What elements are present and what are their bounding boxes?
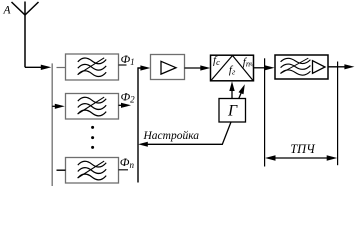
svg-text:А: А xyxy=(3,5,12,17)
svg-text:fс: fс xyxy=(213,55,220,68)
mixer diagonal right xyxy=(233,56,254,81)
IF filter symbol xyxy=(280,58,310,75)
filter F2 symbol xyxy=(78,97,107,116)
filter block F1 xyxy=(66,54,119,80)
wire output stub F1 xyxy=(119,64,127,66)
filter Fn symbol xyxy=(78,161,107,180)
antenna A xyxy=(12,2,39,68)
amplifier U1 xyxy=(151,55,185,80)
wire input arrow F2 xyxy=(52,104,65,109)
dimension double arrow xyxy=(265,155,337,160)
wire G to mixer with arrow xyxy=(229,81,234,98)
svg-text:Настройка: Настройка xyxy=(143,129,200,142)
IF amplifier triangle xyxy=(313,61,326,74)
amplifier triangle xyxy=(161,61,176,74)
ellipsis dots xyxy=(91,126,94,149)
wire input stub Fn xyxy=(57,169,66,171)
wire IF output arrow xyxy=(328,64,354,69)
mixer diagonal left xyxy=(211,56,233,81)
tuning wire (Nastroyka) xyxy=(138,122,231,147)
IF section dimension line left xyxy=(264,58,266,166)
wire input stub F1 xyxy=(57,67,66,69)
svg-text:fг: fг xyxy=(229,64,236,77)
mixer U2 xyxy=(211,55,254,81)
output bus (right vertical) xyxy=(137,68,142,183)
input bus (left vertical) xyxy=(51,63,53,186)
svg-text:Г: Г xyxy=(227,103,238,120)
filter block F2 xyxy=(66,94,119,120)
filter block Fn xyxy=(66,158,119,184)
wire antenna to input bus with arrow xyxy=(25,65,51,70)
wire output arrow F2 xyxy=(119,103,132,108)
wire mixer to IF block with arrow xyxy=(254,65,275,70)
wire output stub Fn xyxy=(119,169,129,171)
tuning diagonal arrow of G xyxy=(239,84,245,98)
IF section dimension line right xyxy=(337,62,339,166)
svg-text:ТПЧ: ТПЧ xyxy=(290,142,316,156)
wire bus to amplifier with arrow xyxy=(140,65,150,70)
svg-text:fпч: fпч xyxy=(243,56,254,69)
wire amplifier to mixer with arrow xyxy=(185,65,211,70)
IF filter-amplifier block xyxy=(275,55,328,79)
filter F1 symbol xyxy=(78,58,107,77)
generator G xyxy=(219,99,246,123)
